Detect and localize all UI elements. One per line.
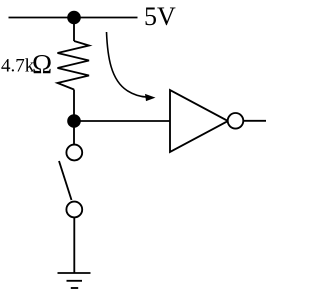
annotation arrow (curved, pointing at inverter input) bbox=[107, 32, 148, 97]
wire from 5V junction to resistor top bbox=[73, 18, 75, 42]
node 5V junction (filled dot) bbox=[67, 11, 81, 25]
svg-text:Ω: Ω bbox=[32, 49, 52, 79]
ground bbox=[58, 273, 91, 288]
wire 5V rail (top horizontal) bbox=[9, 17, 138, 19]
wire from switch to ground bbox=[73, 217, 75, 273]
inverter U1 output bubble bbox=[228, 113, 244, 129]
switch S1 bottom terminal (open circle) bbox=[66, 202, 82, 218]
wire from resistor bottom to node A bbox=[73, 90, 75, 122]
wire from node A down to switch bbox=[73, 121, 75, 145]
svg-text:5V: 5V bbox=[144, 2, 176, 31]
switch S1 top terminal (open circle) bbox=[66, 145, 82, 161]
wire inverter output bbox=[243, 120, 266, 122]
resistor R1 4.7k ohm (zigzag) bbox=[58, 41, 90, 90]
node A junction (filled dot) bbox=[67, 114, 81, 128]
switch S1 lever bbox=[59, 161, 72, 200]
inverter U1 (triangle) bbox=[170, 90, 228, 152]
wire from node A to inverter input bbox=[74, 120, 170, 122]
svg-text:4.7k: 4.7k bbox=[1, 56, 35, 77]
